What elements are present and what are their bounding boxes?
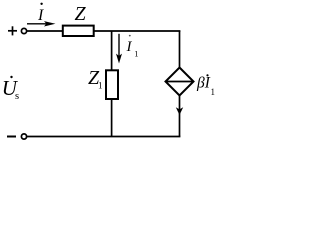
svg-text:Z: Z: [75, 3, 87, 25]
resistor Z: [63, 26, 94, 36]
terminal - (negative): [7, 136, 16, 138]
terminal node bottom-left: [21, 134, 26, 139]
label beta I1: [196, 74, 215, 97]
wire bottom: [27, 136, 181, 138]
svg-text:I: I: [126, 39, 133, 55]
svg-text:βI: βI: [196, 75, 211, 92]
wire below diamond with arrow: [176, 96, 183, 137]
terminal node top-left: [21, 28, 26, 33]
label I dot (phasor): [40, 3, 42, 5]
wire top: [27, 30, 181, 32]
label Z1: [88, 67, 103, 91]
svg-text:1: 1: [98, 81, 103, 91]
svg-text:I: I: [37, 7, 44, 24]
svg-text:1: 1: [134, 48, 138, 58]
current arrow I1: [116, 34, 122, 64]
dependent current source beta I1 (diamond): [166, 68, 194, 96]
wire branch to Z1: [111, 31, 113, 71]
current arrow I (top): [27, 21, 56, 26]
terminal + (positive): [8, 26, 17, 35]
svg-text:1: 1: [211, 87, 216, 97]
svg-text:s: s: [15, 91, 19, 102]
label I1 dot: [129, 35, 131, 37]
label Us (source voltage): [2, 76, 19, 102]
impedance Z1: [106, 70, 118, 99]
label I1: [126, 39, 139, 58]
wire Z1 bottom: [111, 99, 113, 137]
wire right branch: [179, 31, 181, 68]
